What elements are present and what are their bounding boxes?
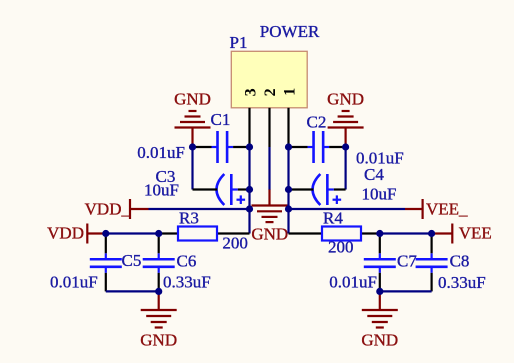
svg-text:R4: R4	[323, 209, 343, 228]
svg-text:C6: C6	[177, 252, 197, 271]
svg-text:C4: C4	[364, 165, 384, 184]
svg-text:GND: GND	[140, 330, 177, 349]
svg-text:C8: C8	[450, 252, 470, 271]
svg-text:200: 200	[222, 234, 248, 253]
svg-text:C7: C7	[397, 252, 417, 271]
svg-text:GND: GND	[174, 90, 211, 109]
svg-text:0.33uF: 0.33uF	[438, 273, 486, 292]
svg-text:GND: GND	[327, 90, 364, 109]
svg-text:1: 1	[282, 88, 299, 96]
svg-text:C1: C1	[211, 110, 231, 129]
svg-text:VEE_: VEE_	[426, 199, 468, 218]
svg-text:VDD_: VDD_	[85, 199, 131, 218]
svg-text:200: 200	[328, 238, 354, 257]
svg-text:0.33uF: 0.33uF	[163, 273, 211, 292]
svg-text:0.01uF: 0.01uF	[137, 143, 185, 162]
svg-text:3: 3	[243, 88, 260, 96]
svg-text:R3: R3	[179, 208, 199, 227]
svg-text:0.01uF: 0.01uF	[50, 272, 98, 291]
svg-text:0.01uF: 0.01uF	[329, 273, 377, 292]
svg-text:10uF: 10uF	[144, 181, 179, 200]
svg-text:VDD: VDD	[47, 224, 84, 243]
svg-text:GND: GND	[251, 224, 288, 243]
svg-text:10uF: 10uF	[362, 184, 397, 203]
svg-text:GND: GND	[361, 330, 398, 349]
svg-text:VEE: VEE	[459, 224, 492, 243]
svg-text:C2: C2	[307, 113, 327, 132]
svg-text:2: 2	[262, 88, 279, 96]
svg-text:P1: P1	[230, 33, 248, 52]
svg-text:POWER: POWER	[260, 22, 320, 41]
svg-text:C5: C5	[122, 251, 142, 270]
